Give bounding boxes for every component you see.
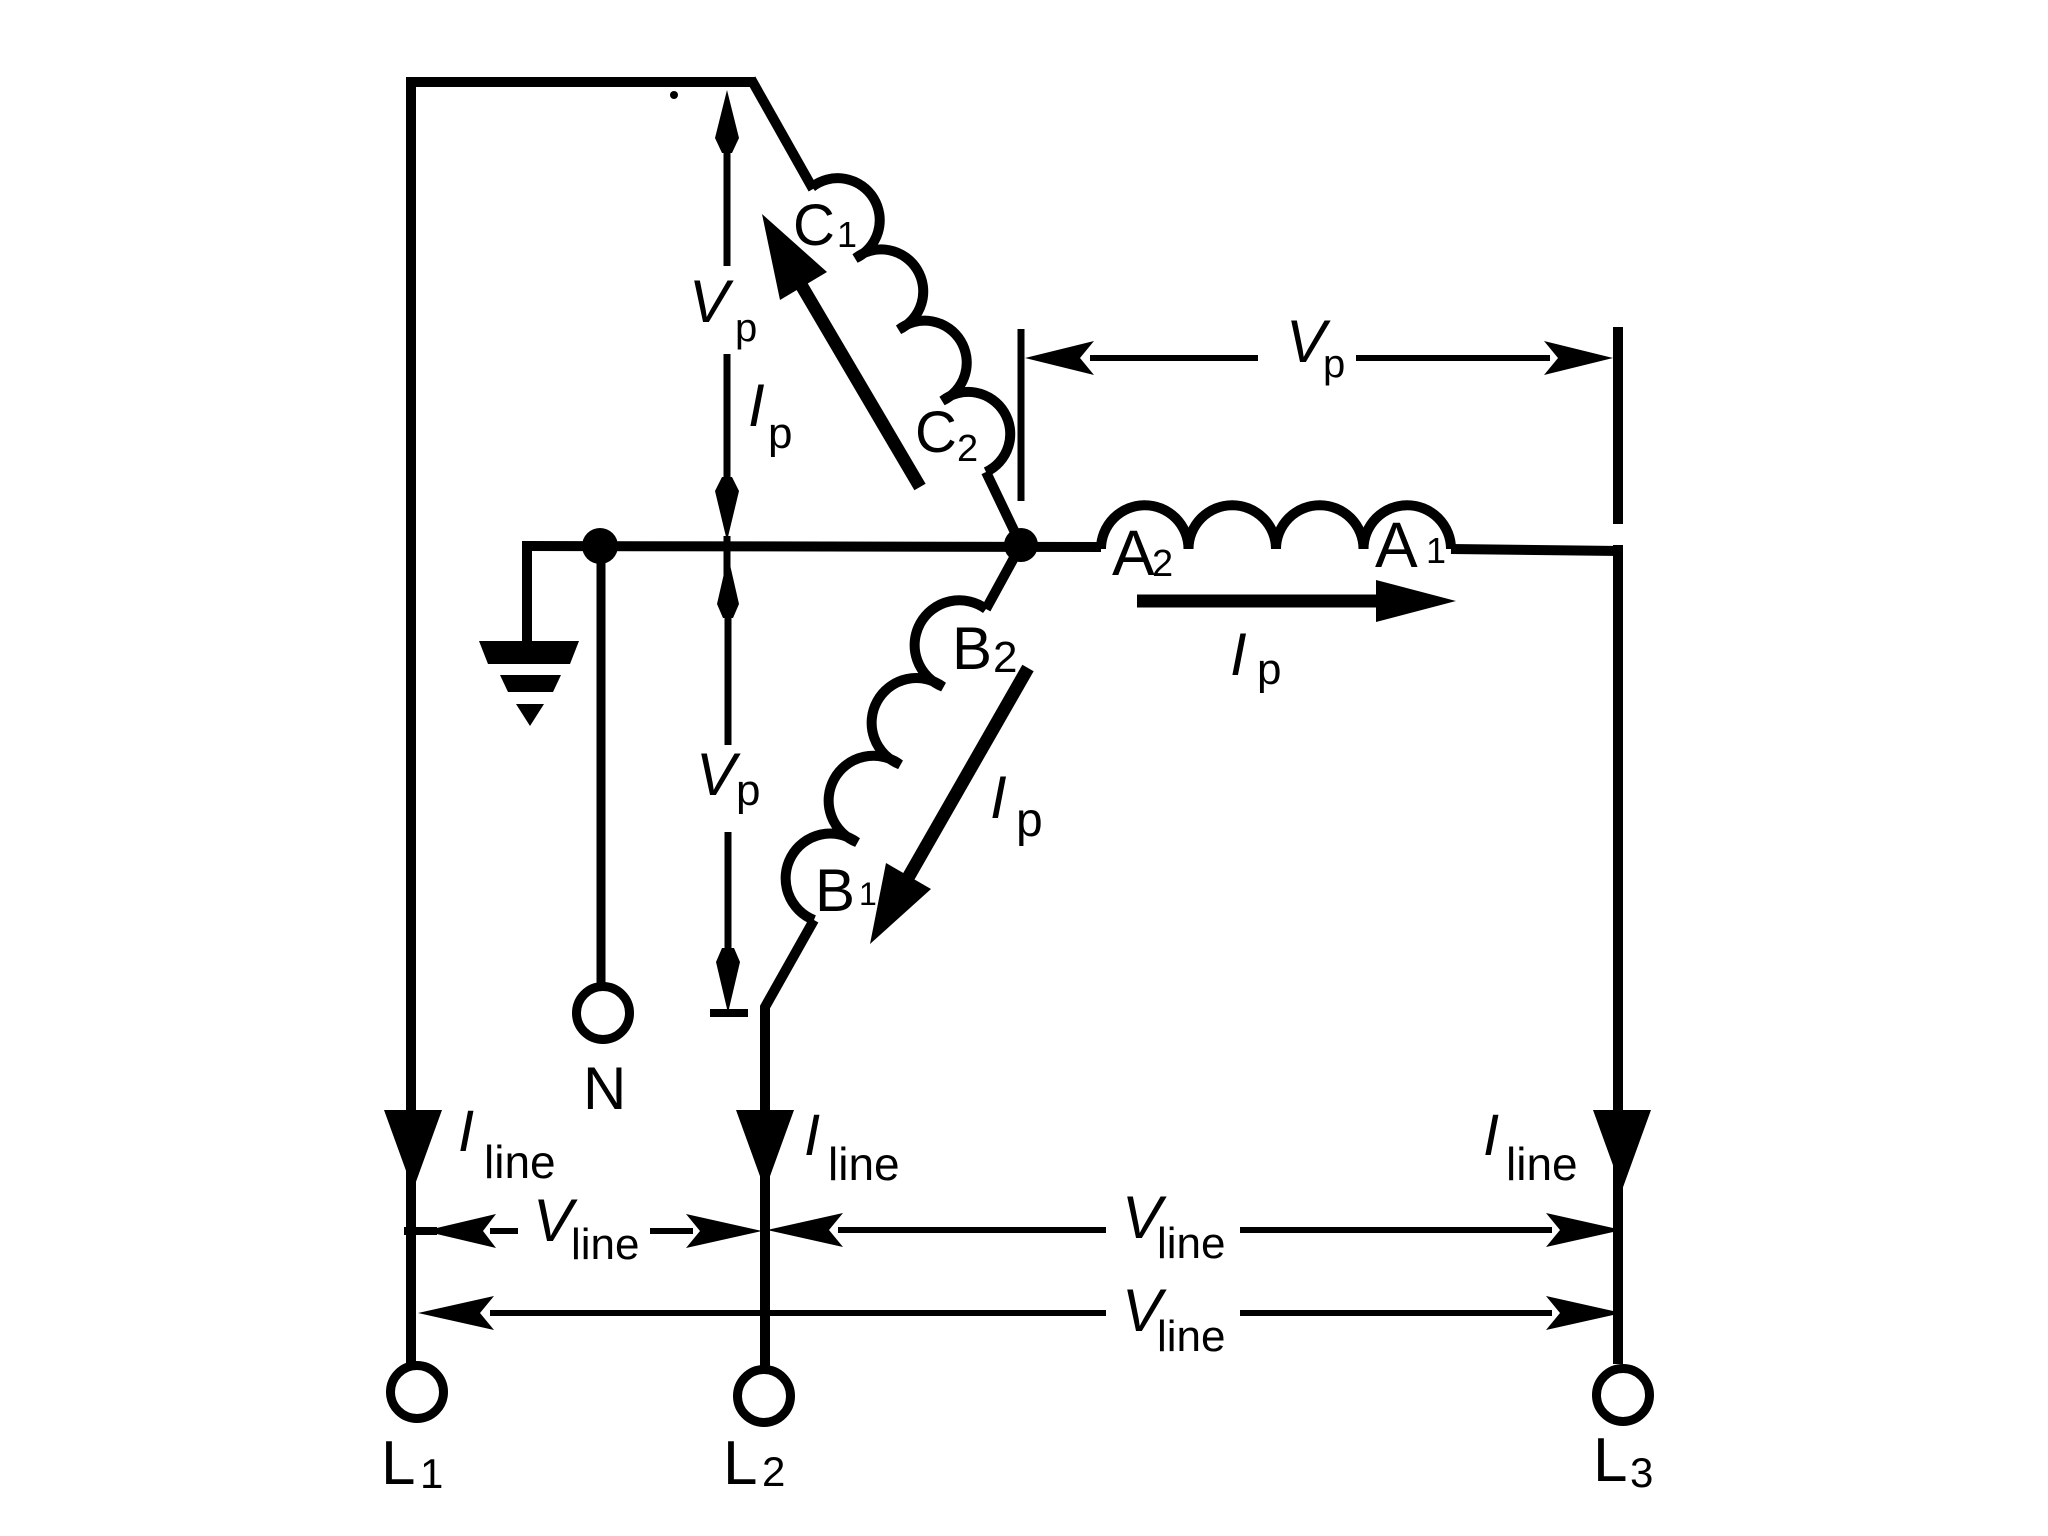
svg-text:V: V bbox=[689, 268, 734, 335]
svg-text:I: I bbox=[458, 1099, 474, 1164]
svg-text:C: C bbox=[915, 400, 957, 465]
ground symbol bbox=[479, 641, 579, 726]
svg-text:I: I bbox=[804, 1103, 820, 1168]
junction dot at neutral tap bbox=[582, 528, 618, 564]
svg-text:p: p bbox=[1257, 645, 1281, 694]
dimension V_line L1-L2: right arrowhead bbox=[686, 1214, 762, 1248]
svg-text:p: p bbox=[736, 766, 760, 815]
current arrow Ip under winding A: shaft bbox=[1137, 595, 1392, 608]
terminal L1 bbox=[391, 1366, 444, 1419]
dimension V_line L1-L3: right shaft bbox=[1240, 1310, 1552, 1316]
dimension Vp lower: shaft lower segment bbox=[725, 832, 732, 956]
wire: right line upper segment (Vp extension) bbox=[1613, 327, 1623, 524]
svg-text:I: I bbox=[1230, 621, 1247, 688]
svg-text:2: 2 bbox=[762, 1448, 785, 1495]
svg-text:line: line bbox=[1506, 1138, 1578, 1190]
wire: drop to neutral terminal N bbox=[597, 546, 606, 986]
wire: neutral bus bbox=[527, 546, 1101, 547]
dimension V_line L1-L3: left shaft bbox=[490, 1310, 1106, 1316]
dimension V_line L1-L2: left shaft bbox=[490, 1228, 518, 1234]
winding C (C1 to C2) bbox=[812, 178, 1010, 472]
svg-text:B: B bbox=[815, 857, 855, 924]
svg-text:1: 1 bbox=[859, 876, 877, 912]
dimension Vp lower (winding B): up arrowhead bbox=[717, 556, 739, 618]
dimension Vp upper: shaft upper segment bbox=[724, 150, 731, 266]
svg-text:1: 1 bbox=[420, 1450, 443, 1497]
dimension Vp upper: shaft lower segment bbox=[724, 354, 731, 484]
wire: right line down to L3 bbox=[1613, 545, 1623, 1364]
svg-text:line: line bbox=[571, 1220, 640, 1269]
wire: B1 to L2 line bbox=[765, 920, 814, 1366]
current vector Ip in winding B: head bbox=[870, 863, 931, 944]
svg-text:I: I bbox=[1483, 1103, 1499, 1168]
winding B (B2 to B1) bbox=[786, 600, 986, 920]
svg-text:V: V bbox=[696, 741, 741, 808]
svg-text:line: line bbox=[1157, 1219, 1226, 1268]
dimension V_line L1-L2: right shaft bbox=[650, 1228, 693, 1234]
wire: ground branch drop bbox=[522, 541, 532, 644]
current arrow Ip under winding A: head bbox=[1376, 580, 1456, 622]
dimension Vp across winding A: left extension line bbox=[1018, 329, 1025, 501]
terminal L2 bbox=[738, 1370, 791, 1423]
dimension Vp across winding A: left arrowhead bbox=[1025, 341, 1094, 375]
svg-text:2: 2 bbox=[1152, 543, 1173, 585]
winding A (A2 to A1) bbox=[1101, 505, 1451, 549]
dimension Vp lower: shaft upper segment bbox=[725, 610, 732, 745]
dimension Vp lower: down arrowhead bbox=[716, 948, 740, 1013]
svg-text:C: C bbox=[793, 193, 835, 258]
svg-text:1: 1 bbox=[1426, 530, 1446, 571]
dimension V_line L2-L3: right arrowhead bbox=[1546, 1213, 1622, 1247]
dimension Vp lower: end tick bbox=[710, 1009, 748, 1017]
wire: left line to L1 bbox=[406, 77, 416, 1363]
wire: star point to B2 bbox=[986, 545, 1021, 609]
svg-text:3: 3 bbox=[1630, 1449, 1653, 1496]
dimension Vp upper (winding C): up arrowhead bbox=[715, 90, 739, 153]
dimension Vp across winding A: right arrowhead bbox=[1544, 341, 1613, 375]
svg-text:2: 2 bbox=[993, 633, 1017, 682]
dimension V_line L2-L3: left arrowhead bbox=[767, 1213, 843, 1247]
svg-text:2: 2 bbox=[957, 428, 978, 470]
current vector Ip in winding C: head bbox=[762, 214, 827, 300]
svg-text:I: I bbox=[990, 764, 1007, 831]
svg-text:A: A bbox=[1375, 509, 1418, 581]
dimension Vp across winding A: left shaft bbox=[1090, 355, 1258, 361]
dimension V_line L1-L2: left arrowhead bbox=[424, 1214, 496, 1248]
svg-text:B: B bbox=[952, 615, 992, 682]
svg-text:p: p bbox=[1016, 794, 1043, 847]
dimension V_line L2-L3: left shaft bbox=[838, 1227, 1106, 1233]
svg-text:1: 1 bbox=[837, 214, 857, 255]
svg-text:A: A bbox=[1112, 517, 1155, 589]
svg-text:line: line bbox=[1157, 1312, 1226, 1361]
wire: A1 to right line bbox=[1451, 549, 1620, 551]
svg-text:I: I bbox=[748, 372, 765, 439]
wire: diagonal from top bus to C1 end bbox=[751, 79, 813, 189]
wire: top bus from L1 to winding C bbox=[406, 77, 755, 87]
dimension Vp across winding A: right shaft bbox=[1356, 355, 1550, 361]
wire: C2 to star point bbox=[986, 472, 1021, 545]
terminal L3 bbox=[1597, 1369, 1650, 1422]
svg-text:p: p bbox=[768, 409, 792, 458]
svg-text:p: p bbox=[1323, 342, 1345, 386]
dimension V_line L1-L3: left arrowhead bbox=[418, 1296, 494, 1330]
line current arrow Iline on L2 bbox=[736, 1110, 794, 1190]
star point junction dot bbox=[1004, 528, 1038, 562]
dimension V_line L1-L3: right arrowhead bbox=[1546, 1296, 1622, 1330]
svg-text:L: L bbox=[381, 1429, 415, 1498]
svg-text:L: L bbox=[1593, 1426, 1627, 1495]
svg-text:line: line bbox=[484, 1136, 556, 1188]
svg-text:line: line bbox=[828, 1138, 900, 1190]
current vector Ip in winding B: shaft bbox=[905, 668, 1028, 883]
line current arrow Iline on L1 bbox=[384, 1110, 442, 1190]
dimension Vp upper: overshoot stub through bus bbox=[724, 536, 731, 578]
dimension V_line L2-L3: right shaft bbox=[1240, 1227, 1552, 1233]
svg-text:L: L bbox=[723, 1429, 757, 1498]
terminal N bbox=[577, 987, 630, 1040]
svg-text:N: N bbox=[583, 1055, 626, 1122]
line current arrow Iline on L3 bbox=[1593, 1110, 1651, 1190]
dimension V_line L1-L2: tick across L1 bbox=[404, 1227, 437, 1235]
current vector Ip in winding C: shaft bbox=[800, 283, 920, 487]
svg-text:p: p bbox=[735, 306, 757, 350]
dimension Vp upper: down arrowhead bbox=[715, 477, 739, 541]
